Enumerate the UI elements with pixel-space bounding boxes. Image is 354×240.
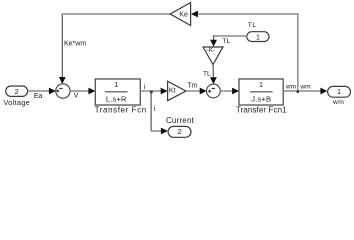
svg-text:1: 1 (337, 87, 341, 96)
wire wm (Transfer Fcn1 to wm port) (283, 90, 321, 92)
svg-text:2: 2 (15, 87, 19, 96)
svg-text:Kt: Kt (169, 85, 176, 94)
svg-text:Transfer Fcn: Transfer Fcn (95, 106, 147, 115)
arrowhead into Transfer Fcn1 (232, 88, 239, 95)
arrowhead into S2 top (210, 77, 217, 84)
output port Current (oval with 2) (166, 116, 195, 138)
gain Ke (triangle pointing left) (170, 3, 190, 26)
arrowhead into sum S2 (200, 88, 207, 95)
wire Ea (Voltage to sum S1) (28, 90, 50, 92)
svg-text:TL: TL (248, 22, 257, 29)
arrowhead into wm port (320, 88, 327, 95)
svg-text:Voltage: Voltage (3, 98, 30, 107)
svg-text:L.s+R: L.s+R (106, 94, 127, 103)
wire TL (TL port to gain -K-) (213, 35, 247, 37)
svg-text:Current: Current (166, 116, 195, 125)
gain Kt (triangle) (168, 81, 186, 100)
svg-text:1: 1 (259, 80, 263, 89)
arrowhead into sum S1 (49, 88, 56, 95)
svg-text:Tm: Tm (187, 83, 198, 90)
input port Voltage (oval with 2) (3, 86, 30, 107)
svg-text:wm: wm (285, 84, 297, 91)
junction dot on wire i (150, 91, 153, 94)
wire i (Transfer Fcn to gain Kt) (140, 90, 161, 92)
svg-text:1: 1 (114, 80, 118, 89)
svg-text:-K-: -K- (207, 47, 216, 54)
wire branch to Current output (150, 91, 152, 131)
sum junction S2 (207, 84, 221, 98)
feedback wire right (wm branch up and across to Ke) (297, 13, 299, 90)
sum junction S1 (56, 84, 70, 98)
wire Tm (Kt to sum S2) (186, 90, 200, 92)
svg-text:wm: wm (299, 84, 311, 91)
svg-text:1: 1 (256, 32, 260, 41)
svg-text:J.s+B: J.s+B (251, 94, 271, 103)
svg-text:TL: TL (203, 71, 211, 78)
svg-text:Ea: Ea (34, 93, 43, 100)
wire top feedback horizontal (62, 13, 172, 15)
svg-text:Transfer Fcn1: Transfer Fcn1 (236, 106, 287, 115)
junction dot on wire wm (297, 90, 299, 93)
svg-text:TL: TL (222, 38, 230, 45)
output port wm (oval with 1) (328, 86, 351, 106)
wire S2 to Transfer Fcn1 (220, 90, 232, 92)
wire -K- to sum S2 (212, 65, 214, 79)
arrowhead into Current port (161, 128, 168, 135)
svg-text:Ke*wm: Ke*wm (64, 41, 86, 48)
svg-text:V: V (74, 92, 79, 99)
arrowhead into S1 top (59, 77, 66, 84)
svg-text:Ke: Ke (179, 10, 188, 19)
arrowhead into gain -K- (210, 40, 217, 47)
feedback wire Ke*wm (vertical into S1 top) (61, 14, 63, 78)
arrowhead into gain Kt (161, 88, 168, 95)
arrowhead into Ke base (191, 11, 198, 18)
wire v (S1 to Transfer Fcn) (70, 90, 89, 92)
Transfer Fcn1 block 1/(J.s+B) (236, 79, 287, 115)
svg-text:2: 2 (178, 127, 182, 136)
input port TL (oval with 1) (247, 22, 269, 41)
gain -K- (triangle pointing down) (203, 47, 223, 65)
arrowhead into Transfer Fcn (88, 88, 95, 95)
Transfer Fcn block 1/(L.s+R) (95, 79, 147, 115)
svg-text:wm: wm (332, 99, 344, 106)
